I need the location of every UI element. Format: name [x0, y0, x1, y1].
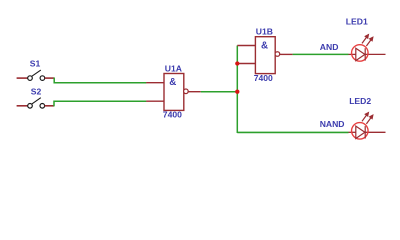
svg-text:U1B: U1B: [256, 26, 273, 36]
wire vertical net: [236, 46, 238, 134]
svg-text:S1: S1: [30, 59, 41, 69]
wire U1B output (AND net): [293, 53, 349, 55]
junction dot A: [235, 90, 239, 94]
LED LED1: [349, 35, 386, 61]
svg-text:NAND: NAND: [320, 119, 345, 129]
svg-text:LED2: LED2: [349, 96, 371, 106]
svg-text:S2: S2: [31, 86, 42, 96]
svg-text:&: &: [169, 77, 176, 88]
wire junction to LED2 (NAND net): [237, 131, 348, 133]
wire U1A output to junction: [201, 91, 238, 93]
switch S1: [17, 70, 55, 80]
svg-text:&: &: [261, 41, 268, 52]
NAND gate U1B: [237, 37, 292, 74]
svg-text:LED1: LED1: [346, 16, 368, 26]
wire S2 to U1A pin 2: [54, 101, 146, 106]
switch S2: [17, 98, 54, 108]
svg-text:AND: AND: [320, 42, 339, 52]
NAND gate U1A: [146, 74, 201, 111]
svg-text:U1A: U1A: [165, 64, 182, 74]
junction dot B: [235, 61, 239, 65]
LED LED2: [349, 113, 386, 139]
svg-text:7400: 7400: [254, 73, 273, 83]
svg-text:7400: 7400: [163, 110, 182, 120]
wire S1 to U1A pin 1: [54, 78, 146, 83]
